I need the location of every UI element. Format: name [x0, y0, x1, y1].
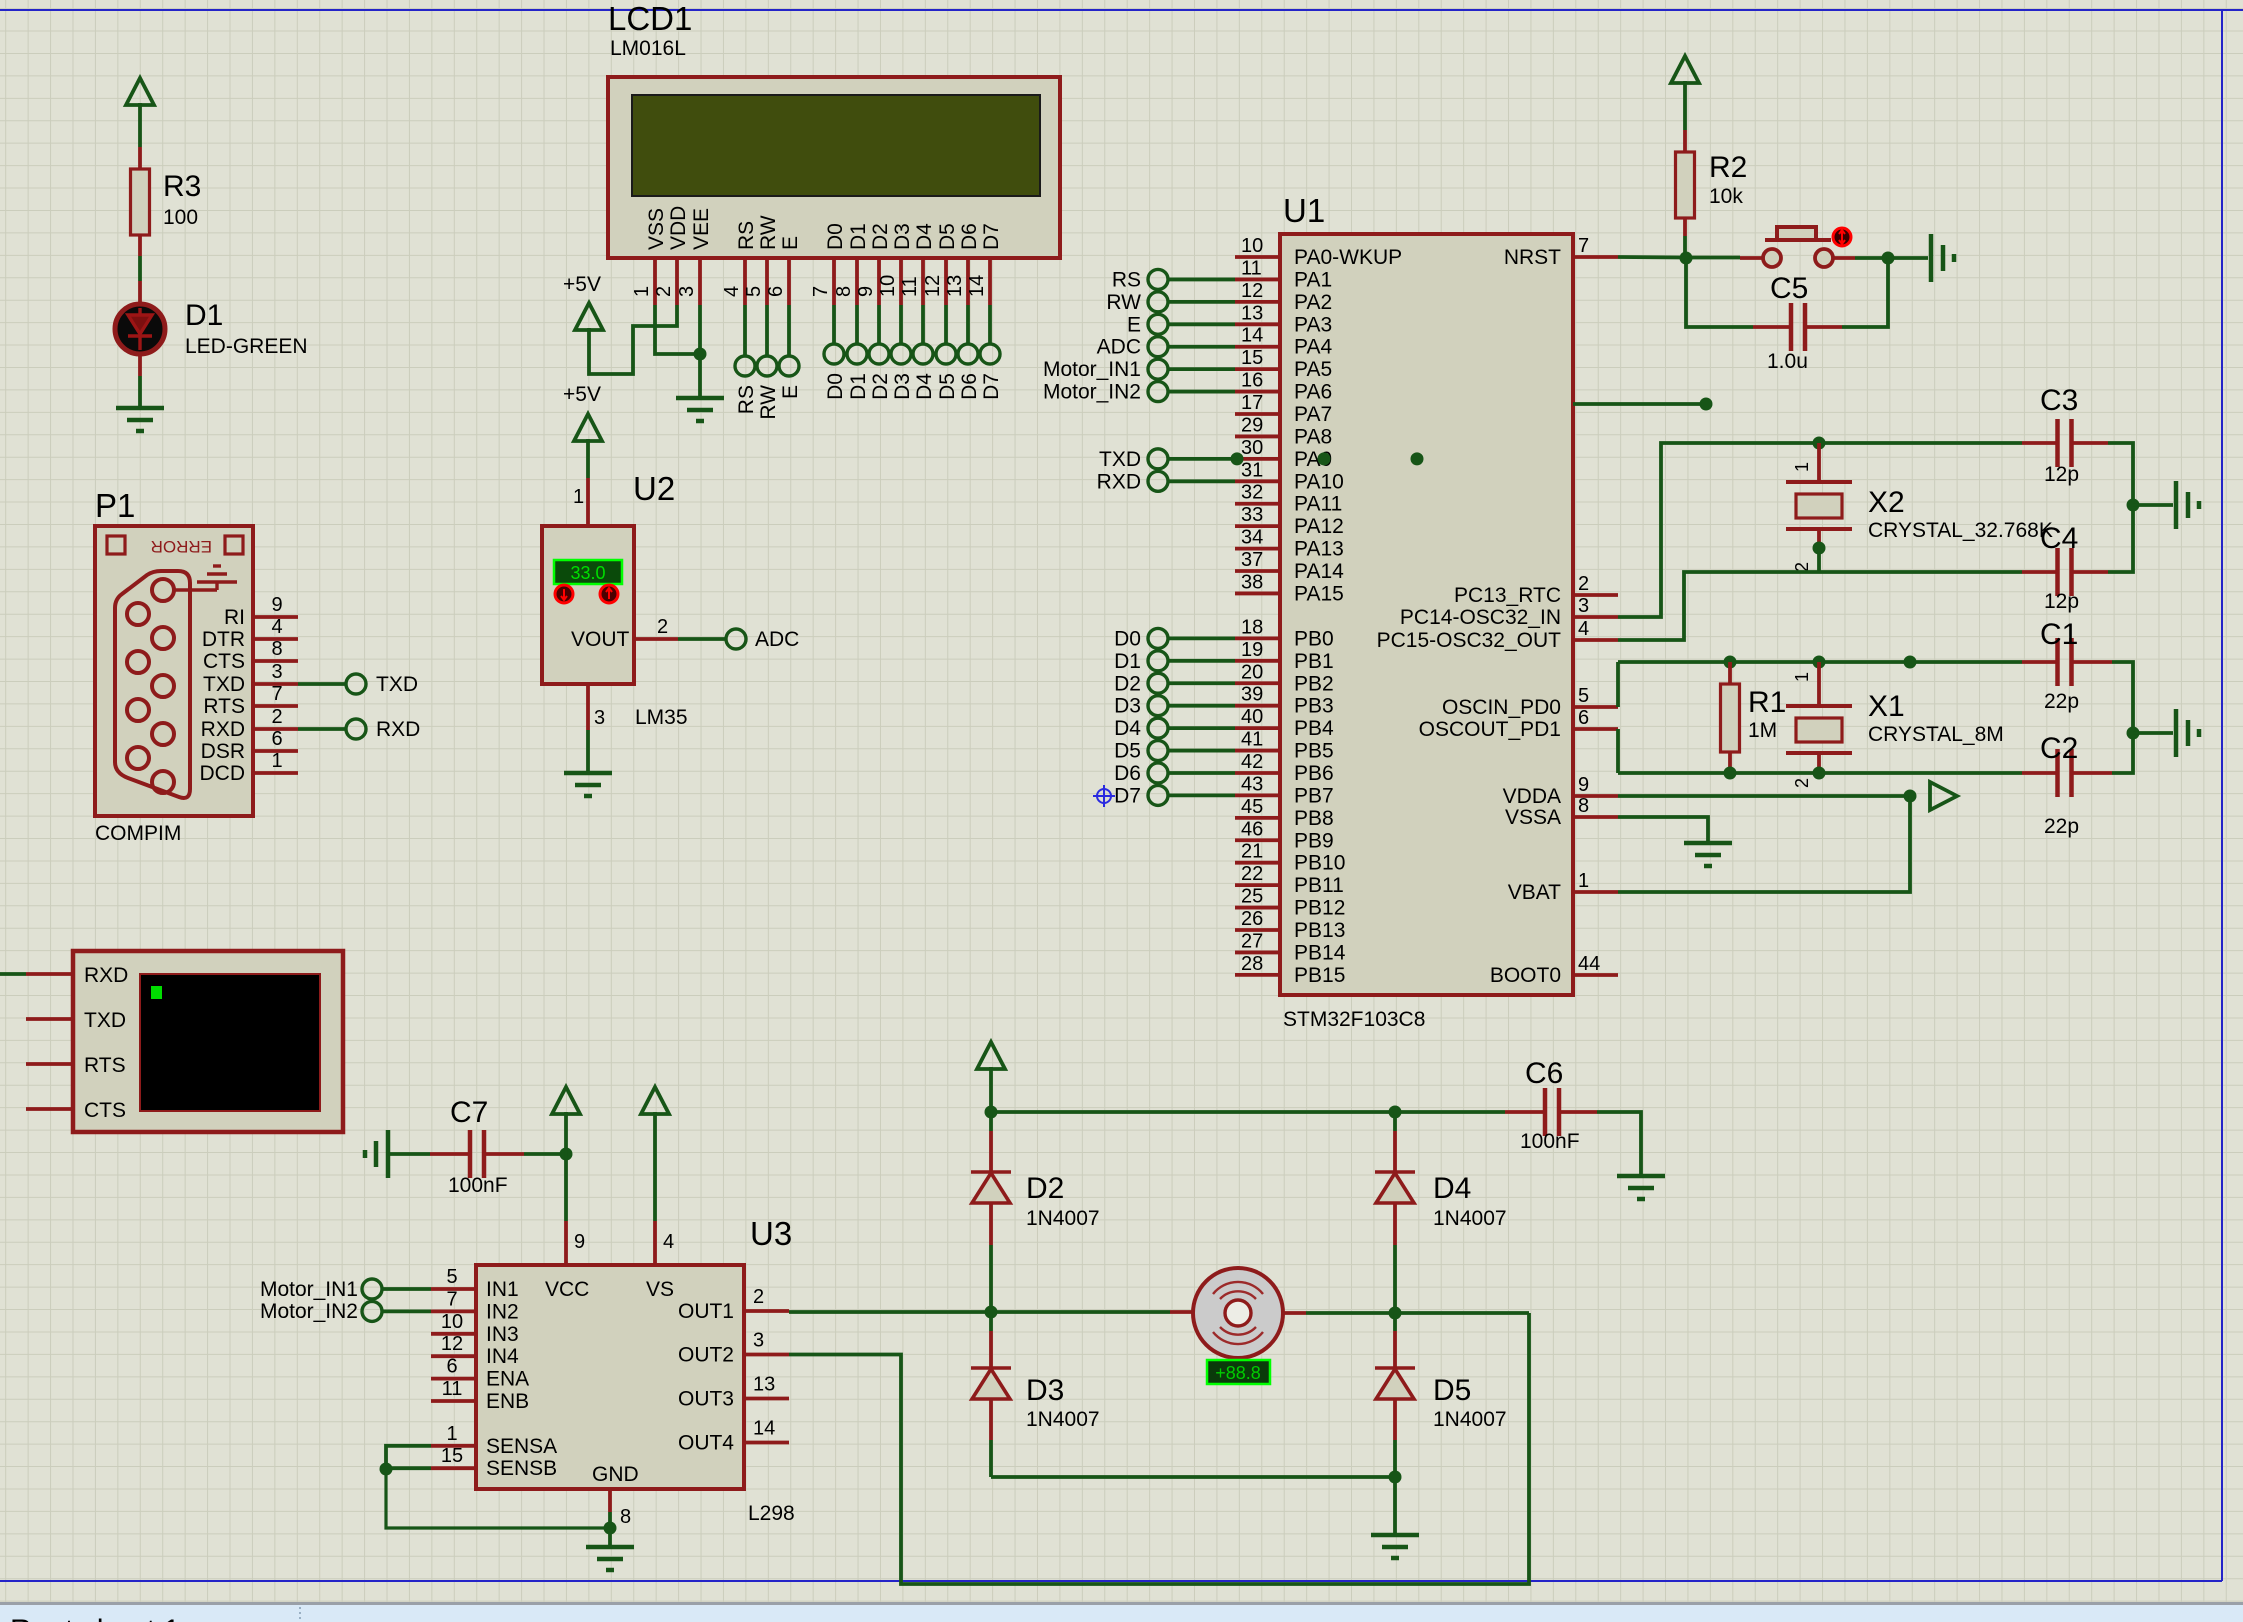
- wire PC15 to C4 rail: [1618, 572, 2022, 640]
- svg-text:4: 4: [721, 286, 743, 297]
- svg-text:8: 8: [1578, 795, 1589, 817]
- svg-text:D1: D1: [1114, 650, 1141, 673]
- labels U1 left terminals: [1043, 268, 1141, 807]
- svg-text:13: 13: [944, 275, 966, 297]
- U3 pin 9 VCC: [564, 1221, 568, 1265]
- junction 8M ground branch: [2127, 727, 2140, 740]
- LCD1 screen: [632, 95, 1040, 196]
- svg-text:RTS: RTS: [84, 1054, 126, 1077]
- P1 internal ground glyph: [174, 566, 237, 590]
- junction button/C5 right: [1882, 252, 1895, 265]
- svg-text:D6: D6: [958, 223, 981, 250]
- svg-text:3: 3: [1578, 595, 1589, 617]
- svg-text:29: 29: [1241, 414, 1263, 436]
- svg-text:PB4: PB4: [1294, 717, 1334, 740]
- svg-text:D7: D7: [980, 223, 1003, 250]
- svg-text:44: 44: [1578, 953, 1600, 975]
- svg-text:Motor_IN1: Motor_IN1: [1043, 358, 1141, 381]
- svg-text:RI: RI: [224, 606, 245, 629]
- svg-text:ADC: ADC: [755, 628, 799, 651]
- wire OSCOUT to C2 rail: [1616, 729, 1620, 773]
- virtual terminal cursor: [151, 986, 162, 999]
- svg-text:7: 7: [271, 683, 282, 705]
- svg-text:PA0-WKUP: PA0-WKUP: [1294, 246, 1402, 269]
- wire D1 to ground: [138, 376, 142, 407]
- svg-text:IN3: IN3: [486, 1323, 519, 1346]
- svg-text:D5: D5: [936, 223, 959, 250]
- svg-text:28: 28: [1241, 953, 1263, 975]
- origin marker D7: [1093, 785, 1115, 807]
- svg-text:PA6: PA6: [1294, 381, 1332, 404]
- P1 pin names: [200, 606, 246, 785]
- wire PA6 stub right: [1573, 402, 1706, 406]
- svg-text:D1: D1: [185, 299, 223, 332]
- svg-text:D1: D1: [847, 223, 870, 250]
- wire U2 pin3 to ground: [586, 730, 590, 772]
- svg-text:1: 1: [446, 1423, 457, 1445]
- svg-text:9: 9: [1578, 774, 1589, 796]
- svg-text:22p: 22p: [2044, 815, 2079, 838]
- wire NRST: [1618, 255, 1740, 259]
- wire D5 to ground: [1393, 1477, 1397, 1534]
- diode D3 1N4007: [989, 1312, 993, 1331]
- svg-text:IN4: IN4: [486, 1345, 519, 1368]
- junction C1 rail mid: [1904, 656, 1917, 669]
- svg-text:D7: D7: [980, 373, 1003, 400]
- wire to ground (32k): [2133, 503, 2173, 507]
- virtual terminal screen: [140, 974, 320, 1111]
- ground (D1): [116, 408, 164, 431]
- svg-text:P1: P1: [95, 487, 135, 524]
- U2 pin 3: [586, 684, 590, 730]
- svg-text:33: 33: [1241, 504, 1263, 526]
- svg-text:RTS: RTS: [203, 695, 245, 718]
- svg-text:4: 4: [1578, 618, 1589, 640]
- svg-text:TXD: TXD: [203, 673, 245, 696]
- svg-text:PA3: PA3: [1294, 313, 1332, 336]
- svg-text:RS: RS: [735, 385, 758, 414]
- svg-text:VCC: VCC: [545, 1278, 589, 1301]
- svg-text:10: 10: [1241, 235, 1263, 257]
- svg-text:R3: R3: [163, 170, 201, 203]
- U1 right pin stubs: [1573, 257, 1618, 975]
- svg-text:3: 3: [753, 1330, 764, 1352]
- svg-text:20: 20: [1241, 661, 1263, 683]
- svg-text:8: 8: [833, 286, 855, 297]
- svg-text:30: 30: [1241, 437, 1263, 459]
- svg-text:PB6: PB6: [1294, 762, 1334, 785]
- svg-text:E: E: [1127, 313, 1141, 336]
- svg-text:1N4007: 1N4007: [1026, 1207, 1100, 1230]
- svg-text:C6: C6: [1525, 1057, 1563, 1090]
- svg-text:TXD: TXD: [1099, 448, 1141, 471]
- svg-text:+5V: +5V: [563, 383, 601, 406]
- terminal Motor_IN2 (U3): [362, 1301, 382, 1321]
- wire Motor_IN2 to IN2: [382, 1310, 431, 1314]
- svg-text:D6: D6: [1114, 762, 1141, 785]
- svg-text:22p: 22p: [2044, 690, 2079, 713]
- wire VSSA to ground: [1618, 817, 1708, 842]
- wire C5 left branch: [1686, 258, 1753, 327]
- svg-text:40: 40: [1241, 706, 1263, 728]
- U3 right pin stubs and numbers: [744, 1286, 789, 1443]
- wire X2 pin2 to C4 rail: [1817, 548, 1821, 572]
- svg-text:10: 10: [441, 1311, 463, 1333]
- svg-text:Motor_IN2: Motor_IN2: [1043, 381, 1141, 404]
- junction VCC/C7: [560, 1148, 573, 1161]
- power +5V (motor rail): [977, 1042, 1005, 1069]
- wire C1/C2 right join: [2112, 662, 2133, 773]
- svg-text:RW: RW: [757, 215, 780, 250]
- svg-text:PA4: PA4: [1294, 336, 1332, 359]
- wire motor to OUT2 riser: [1306, 1311, 1529, 1315]
- svg-text:PB8: PB8: [1294, 807, 1334, 830]
- svg-text:2: 2: [653, 286, 675, 297]
- labels RS RW E: [735, 385, 802, 420]
- svg-text:33.0: 33.0: [570, 563, 605, 583]
- svg-text:C1: C1: [2040, 618, 2078, 651]
- svg-text:D4: D4: [1433, 1172, 1471, 1205]
- svg-text:PC14-OSC32_IN: PC14-OSC32_IN: [1400, 606, 1561, 629]
- capacitor C5: [1753, 325, 1791, 329]
- svg-text:6: 6: [446, 1356, 457, 1378]
- svg-text:D3: D3: [891, 223, 914, 250]
- svg-text:Root sheet 1: Root sheet 1: [10, 1614, 180, 1622]
- svg-text:CTS: CTS: [84, 1099, 126, 1122]
- svg-text:5: 5: [1578, 685, 1589, 707]
- svg-text:SENSB: SENSB: [486, 1457, 557, 1480]
- svg-text:11: 11: [1241, 257, 1262, 279]
- svg-text:OSCOUT_PD1: OSCOUT_PD1: [1419, 718, 1561, 741]
- U1 left pin numbers: [1241, 235, 1263, 975]
- svg-text:100nF: 100nF: [1520, 1130, 1580, 1153]
- svg-text:OUT2: OUT2: [678, 1344, 734, 1367]
- svg-text:PB5: PB5: [1294, 740, 1334, 763]
- diode D4 1N4007: [1393, 1112, 1397, 1131]
- svg-text:D3: D3: [1026, 1374, 1064, 1407]
- svg-text:VBAT: VBAT: [1508, 881, 1561, 904]
- svg-text:2: 2: [1578, 573, 1589, 595]
- svg-text:2: 2: [657, 616, 668, 638]
- svg-text:D2: D2: [1026, 1172, 1064, 1205]
- svg-text:D2: D2: [1114, 672, 1141, 695]
- svg-text:D7: D7: [1114, 784, 1141, 807]
- U3 left pin names: [486, 1278, 557, 1480]
- wire +5V to VS: [653, 1112, 657, 1221]
- wire OUT2 loop: [789, 1313, 1529, 1584]
- ground (LCD): [676, 398, 724, 421]
- U3 pin 4 VS: [653, 1221, 657, 1265]
- svg-text:4: 4: [663, 1231, 674, 1253]
- svg-text:1: 1: [631, 286, 653, 297]
- svg-text:PB11: PB11: [1294, 874, 1344, 897]
- motor display +88.8: [1207, 1360, 1270, 1384]
- power +5V (R2): [1671, 56, 1699, 83]
- svg-text:RS: RS: [1112, 268, 1141, 291]
- wire motor top rail: [991, 1110, 1505, 1114]
- wire Motor_IN1 to IN1: [382, 1287, 431, 1291]
- junction D4 top: [1389, 1106, 1402, 1119]
- wire +5V to LCD VDD pin2: [589, 305, 677, 374]
- svg-text:15: 15: [441, 1445, 463, 1467]
- svg-text:Motor_IN2: Motor_IN2: [260, 1300, 358, 1323]
- terminal Motor_IN1 (U3): [362, 1279, 382, 1299]
- svg-text:22: 22: [1241, 863, 1263, 885]
- svg-text:14: 14: [1241, 325, 1263, 347]
- svg-text:46: 46: [1241, 818, 1263, 840]
- resistor R2: [1683, 130, 1687, 152]
- svg-text:U2: U2: [633, 470, 675, 507]
- wire +5V to motor top rail: [989, 1067, 993, 1112]
- svg-text:13: 13: [1241, 302, 1263, 324]
- svg-text:IN2: IN2: [486, 1300, 519, 1323]
- svg-text:NRST: NRST: [1504, 246, 1561, 269]
- power +5V (R3 branch): [126, 78, 154, 105]
- svg-text:VSSA: VSSA: [1505, 806, 1561, 829]
- wire RXD off-sheet: [0, 972, 26, 976]
- svg-text:D5: D5: [1114, 740, 1141, 763]
- svg-text:ENB: ENB: [486, 1390, 529, 1413]
- svg-text:COMPIM: COMPIM: [95, 822, 181, 845]
- svg-text:100: 100: [163, 206, 198, 229]
- svg-text:45: 45: [1241, 796, 1263, 818]
- terminals RS RW E: [735, 356, 799, 376]
- svg-text:RXD: RXD: [376, 718, 420, 741]
- svg-text:4: 4: [271, 616, 282, 638]
- svg-text:PB1: PB1: [1294, 650, 1334, 673]
- power arrow (VDDA): [1930, 782, 1957, 810]
- junction VSS/VEE: [694, 348, 707, 361]
- stray junction dots PA9 row: [1318, 452, 1331, 465]
- wires LCD D0-D7 to terminals: [834, 305, 990, 344]
- terminals D0-D7 (LCD): [824, 344, 1000, 364]
- diode D2 1N4007: [989, 1112, 993, 1131]
- svg-text:31: 31: [1241, 459, 1263, 481]
- svg-text:12: 12: [441, 1333, 463, 1355]
- svg-text:17: 17: [1241, 392, 1263, 414]
- wire ground to C7: [388, 1152, 430, 1156]
- wire C1 rail: [1618, 660, 2022, 664]
- svg-text:OUT1: OUT1: [678, 1300, 734, 1323]
- wire PC14 to C3 rail: [1618, 443, 2022, 617]
- svg-text:14: 14: [753, 1418, 775, 1440]
- svg-text:RW: RW: [757, 385, 780, 420]
- U2 up button: [600, 585, 618, 603]
- P1 pin stubs and numbers: [253, 594, 298, 773]
- svg-text:D5: D5: [1433, 1374, 1471, 1407]
- svg-text:1: 1: [1792, 672, 1812, 682]
- svg-text:2: 2: [753, 1286, 764, 1308]
- svg-text:41: 41: [1241, 729, 1263, 751]
- svg-text:VSS: VSS: [645, 208, 668, 250]
- svg-text:18: 18: [1241, 616, 1263, 638]
- U2 down button: [555, 585, 573, 603]
- U2 pin 1: [586, 478, 590, 526]
- capacitor C7: [430, 1152, 469, 1156]
- U2 display 33.0: [554, 560, 622, 584]
- svg-text:PC15-OSC32_OUT: PC15-OSC32_OUT: [1377, 629, 1562, 652]
- svg-text:26: 26: [1241, 908, 1263, 930]
- virtual terminal pin stubs: [26, 974, 73, 1109]
- crystal X1: [1817, 662, 1821, 706]
- svg-text:OSCIN_PD0: OSCIN_PD0: [1442, 696, 1561, 719]
- wire LCD VSS+VEE to ground: [655, 305, 700, 354]
- LCD1 pin name labels: [645, 206, 1003, 250]
- svg-text:D2: D2: [869, 223, 892, 250]
- junction X1 pin1: [1813, 656, 1826, 669]
- svg-text:C4: C4: [2040, 522, 2078, 555]
- LCD1 pin stubs and numbers: [631, 258, 990, 305]
- svg-text:STM32F103C8: STM32F103C8: [1283, 1008, 1425, 1031]
- capacitor C2: [2022, 771, 2057, 775]
- push button: [1740, 256, 1762, 260]
- button red indicator: [1833, 228, 1851, 246]
- wire C2 rail: [1618, 771, 2022, 775]
- P1 DB9 connector outline: [115, 571, 190, 798]
- svg-text:9: 9: [271, 594, 282, 616]
- svg-text:RW: RW: [1106, 291, 1141, 314]
- resistor R3: [138, 147, 142, 169]
- svg-text:12p: 12p: [2044, 590, 2079, 613]
- terminal RXD (P1): [346, 719, 366, 739]
- U1 body STM32F103C8: [1280, 234, 1573, 995]
- U3 pin 8 GND: [608, 1489, 612, 1512]
- svg-text:PB9: PB9: [1294, 829, 1334, 852]
- junction R1 bottom: [1724, 767, 1737, 780]
- svg-text:6: 6: [1578, 707, 1589, 729]
- crystal X2: [1817, 443, 1821, 482]
- svg-text:CRYSTAL_8M: CRYSTAL_8M: [1868, 723, 2004, 746]
- wire VDDA to VBAT: [1618, 796, 1910, 892]
- U1 left pin names: [1294, 246, 1402, 987]
- svg-text:9: 9: [855, 286, 877, 297]
- terminal TXD (P1): [346, 674, 366, 694]
- svg-text:RXD: RXD: [201, 718, 245, 741]
- wire GND pin to ground: [608, 1512, 612, 1546]
- svg-text:19: 19: [1241, 639, 1263, 661]
- svg-text:PB0: PB0: [1294, 627, 1334, 650]
- svg-text:9: 9: [574, 1231, 585, 1253]
- svg-text:10: 10: [877, 275, 899, 297]
- svg-text:PB13: PB13: [1294, 919, 1345, 942]
- LCD1 body LM016L: [608, 77, 1060, 258]
- svg-text:ADC: ADC: [1097, 336, 1141, 359]
- wire R2 to NRST net: [1683, 236, 1687, 258]
- virtual terminal body: [73, 951, 343, 1132]
- svg-text:43: 43: [1241, 773, 1263, 795]
- svg-text:5: 5: [446, 1266, 457, 1288]
- svg-text:3: 3: [676, 286, 698, 297]
- svg-text:8: 8: [271, 638, 282, 660]
- svg-text:DSR: DSR: [201, 740, 245, 763]
- svg-text:PB7: PB7: [1294, 784, 1334, 807]
- svg-text:10k: 10k: [1709, 185, 1743, 208]
- svg-text:VEE: VEE: [690, 208, 713, 250]
- U2 body LM35: [542, 526, 634, 684]
- svg-text:X2: X2: [1868, 486, 1905, 519]
- svg-text:RXD: RXD: [84, 964, 128, 987]
- wire diode bottom rail: [991, 1475, 1395, 1479]
- svg-text:PB15: PB15: [1294, 964, 1345, 987]
- terminals U1 left: [1148, 269, 1168, 805]
- junction motor/D4/D5: [1389, 1307, 1402, 1320]
- U1 right pin names: [1377, 246, 1562, 987]
- svg-text:D4: D4: [913, 223, 936, 250]
- junction OUT1/D2/D3: [985, 1306, 998, 1319]
- junction D5 bottom: [1389, 1471, 1402, 1484]
- svg-text:1.0u: 1.0u: [1767, 350, 1808, 373]
- U2 pin 2 VOUT: [634, 637, 678, 641]
- U3 right pin names: [678, 1300, 734, 1455]
- svg-text:2: 2: [1792, 778, 1812, 788]
- junction GND node: [604, 1522, 617, 1535]
- svg-text:32: 32: [1241, 482, 1263, 504]
- wire R3 to D1: [138, 256, 142, 281]
- svg-text:LM35: LM35: [635, 706, 688, 729]
- svg-text:14: 14: [966, 275, 988, 297]
- svg-text:7: 7: [810, 286, 832, 297]
- svg-text:R2: R2: [1709, 151, 1747, 184]
- svg-text:1M: 1M: [1748, 719, 1777, 742]
- svg-text:BOOT0: BOOT0: [1490, 964, 1561, 987]
- terminal ADC: [726, 629, 746, 649]
- svg-text:8: 8: [620, 1506, 631, 1528]
- svg-text:PC13_RTC: PC13_RTC: [1454, 584, 1561, 607]
- capacitor C6: [1505, 1110, 1544, 1114]
- svg-text:PB14: PB14: [1294, 941, 1346, 964]
- svg-text:ERROR: ERROR: [151, 537, 212, 556]
- svg-text:+5V: +5V: [563, 273, 601, 296]
- wire C6 to ground: [1597, 1112, 1641, 1175]
- svg-text:C2: C2: [2040, 732, 2078, 765]
- svg-text:VOUT: VOUT: [571, 628, 630, 651]
- svg-text:37: 37: [1241, 549, 1263, 571]
- wires U1 left terminals: [1168, 279, 1235, 795]
- junction X2 pin1: [1813, 437, 1826, 450]
- wire P1 RXD to terminal: [298, 727, 346, 731]
- junction VDDA: [1904, 790, 1917, 803]
- status bar: [0, 1602, 2243, 1605]
- motor left pin: [1170, 1310, 1194, 1314]
- svg-text:PA1: PA1: [1294, 268, 1332, 291]
- svg-text:6: 6: [765, 286, 787, 297]
- ground (U3): [586, 1547, 634, 1570]
- svg-text:12p: 12p: [2044, 463, 2079, 486]
- svg-text:R1: R1: [1748, 686, 1786, 719]
- svg-text:1: 1: [1578, 870, 1589, 892]
- junction X1 pin2: [1813, 767, 1826, 780]
- svg-text:Motor_IN1: Motor_IN1: [260, 1278, 358, 1301]
- svg-text:ENA: ENA: [486, 1368, 529, 1391]
- svg-text:12: 12: [1241, 280, 1263, 302]
- motor right pin: [1283, 1311, 1306, 1315]
- resistor R1: [1728, 662, 1732, 684]
- wire SENSA/SENSB loop to ground node: [386, 1446, 431, 1468]
- svg-text:D2: D2: [869, 373, 892, 400]
- ground (C6): [1617, 1176, 1665, 1199]
- svg-text:+88.8: +88.8: [1215, 1363, 1261, 1383]
- svg-text:DTR: DTR: [202, 628, 245, 651]
- wire OUT1 to motor: [789, 1310, 1170, 1314]
- svg-text:11: 11: [899, 276, 921, 297]
- wires LCD RS RW E to terminals: [745, 305, 789, 356]
- svg-text:GND: GND: [592, 1463, 639, 1486]
- svg-text:VDDA: VDDA: [1503, 785, 1561, 808]
- ground (32k): [2176, 481, 2199, 529]
- wire OSCIN to C1 rail: [1616, 662, 1620, 707]
- capacitor C1: [2022, 660, 2057, 664]
- svg-text:PA15: PA15: [1294, 582, 1344, 605]
